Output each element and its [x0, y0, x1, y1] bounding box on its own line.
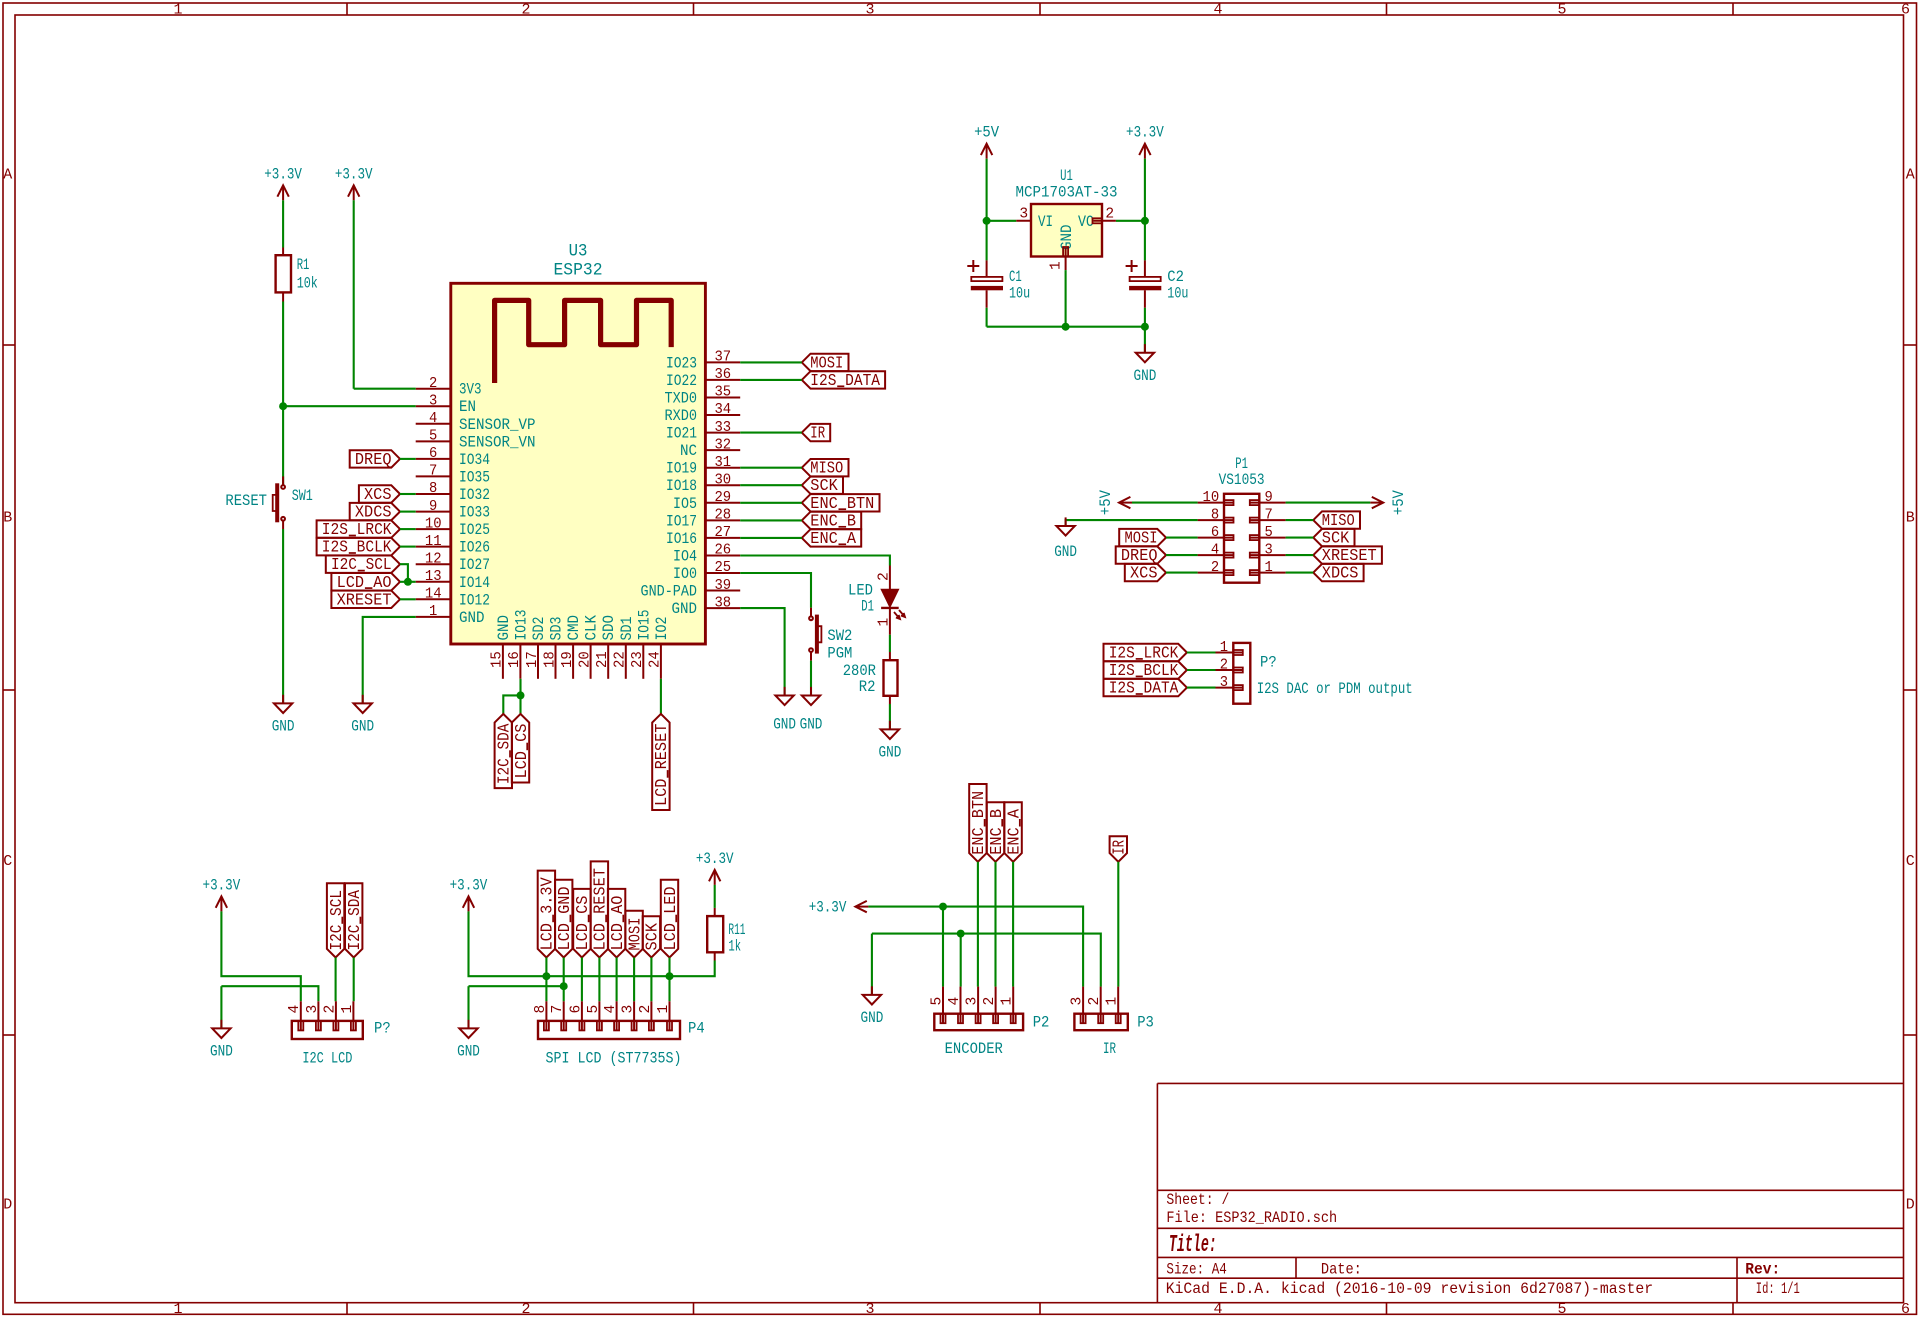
- svg-text:SENSOR_VP: SENSOR_VP: [459, 416, 536, 434]
- svg-text:+3.3V: +3.3V: [264, 165, 302, 183]
- svg-text:6: 6: [429, 446, 437, 462]
- svg-text:16: 16: [507, 651, 523, 668]
- svg-text:14: 14: [425, 587, 442, 603]
- svg-text:C1: C1: [1009, 268, 1022, 286]
- svg-text:1: 1: [1265, 560, 1274, 576]
- svg-text:SD3: SD3: [548, 617, 566, 641]
- svg-text:Title:: Title:: [1169, 1232, 1217, 1259]
- svg-text:7: 7: [1265, 508, 1273, 524]
- svg-text:3: 3: [865, 1301, 874, 1317]
- svg-text:IO16: IO16: [666, 530, 697, 548]
- svg-text:5: 5: [1557, 2, 1566, 19]
- svg-text:IO33: IO33: [459, 504, 490, 522]
- svg-text:+3.3V: +3.3V: [203, 876, 241, 894]
- svg-text:IO14: IO14: [459, 574, 490, 592]
- svg-text:25: 25: [714, 560, 731, 576]
- svg-text:GND: GND: [879, 744, 902, 762]
- svg-text:VS1053: VS1053: [1219, 471, 1265, 489]
- svg-text:11: 11: [425, 534, 442, 550]
- svg-text:P?: P?: [1260, 654, 1277, 672]
- svg-text:Sheet: /: Sheet: /: [1166, 1191, 1229, 1209]
- svg-text:20: 20: [577, 651, 593, 668]
- svg-text:6: 6: [568, 1005, 584, 1014]
- svg-text:SW2: SW2: [827, 627, 852, 645]
- svg-text:4: 4: [429, 411, 438, 427]
- svg-text:+5V: +5V: [974, 124, 1000, 142]
- svg-text:38: 38: [714, 595, 731, 611]
- svg-text:1: 1: [173, 2, 182, 19]
- svg-text:1: 1: [340, 1005, 356, 1014]
- svg-text:1: 1: [173, 1301, 182, 1317]
- svg-text:RESET: RESET: [225, 492, 267, 510]
- svg-text:VI: VI: [1038, 213, 1053, 231]
- svg-text:2: 2: [876, 572, 892, 581]
- svg-text:File: ESP32_RADIO.sch: File: ESP32_RADIO.sch: [1166, 1209, 1337, 1227]
- svg-text:+3.3V: +3.3V: [335, 165, 373, 183]
- svg-text:GND: GND: [495, 615, 513, 641]
- svg-text:27: 27: [714, 525, 731, 541]
- svg-text:SW1: SW1: [292, 487, 313, 505]
- svg-text:IO32: IO32: [459, 486, 490, 504]
- svg-text:13: 13: [425, 569, 442, 585]
- svg-text:23: 23: [630, 651, 646, 668]
- svg-text:24: 24: [648, 651, 664, 668]
- svg-text:ENCODER: ENCODER: [945, 1040, 1003, 1058]
- svg-text:19: 19: [560, 651, 576, 668]
- svg-text:GND: GND: [457, 1043, 480, 1061]
- svg-text:2: 2: [1211, 560, 1219, 576]
- svg-text:6: 6: [1901, 2, 1910, 19]
- svg-text:1: 1: [1105, 997, 1121, 1006]
- svg-text:IO17: IO17: [666, 512, 697, 530]
- svg-text:RXD0: RXD0: [665, 407, 698, 425]
- svg-text:IO13: IO13: [512, 610, 530, 641]
- svg-text:10k: 10k: [297, 275, 318, 293]
- svg-text:10u: 10u: [1167, 285, 1188, 303]
- svg-text:+3.3V: +3.3V: [809, 898, 847, 916]
- svg-text:PGM: PGM: [827, 645, 852, 663]
- svg-text:A: A: [1906, 166, 1915, 183]
- svg-text:SD1: SD1: [618, 617, 636, 641]
- svg-text:GND: GND: [351, 718, 374, 736]
- svg-text:3: 3: [305, 1005, 321, 1014]
- svg-text:IO0: IO0: [673, 565, 697, 583]
- svg-text:8: 8: [429, 481, 437, 497]
- svg-text:SPI LCD (ST7735S): SPI LCD (ST7735S): [546, 1050, 682, 1068]
- svg-text:36: 36: [714, 367, 731, 383]
- svg-text:+3.3V: +3.3V: [696, 850, 734, 868]
- svg-text:1: 1: [429, 604, 438, 620]
- svg-text:B: B: [1906, 510, 1915, 527]
- svg-text:28: 28: [714, 508, 731, 524]
- svg-text:4: 4: [1211, 543, 1220, 559]
- svg-text:2: 2: [521, 2, 530, 19]
- svg-text:10: 10: [425, 516, 442, 532]
- svg-text:+5V: +5V: [1390, 490, 1408, 516]
- svg-text:GND-PAD: GND-PAD: [641, 583, 698, 601]
- svg-text:Date:: Date:: [1321, 1260, 1362, 1278]
- svg-text:R11: R11: [728, 921, 745, 939]
- svg-text:Size: A4: Size: A4: [1166, 1260, 1226, 1278]
- svg-text:21: 21: [595, 651, 611, 668]
- svg-text:10u: 10u: [1009, 285, 1030, 303]
- svg-text:GND: GND: [272, 718, 295, 736]
- svg-text:C2: C2: [1167, 268, 1184, 286]
- svg-text:1: 1: [1000, 997, 1016, 1006]
- svg-text:29: 29: [714, 490, 731, 506]
- svg-text:7: 7: [550, 1005, 566, 1014]
- svg-text:2: 2: [322, 1005, 338, 1014]
- svg-text:GND: GND: [210, 1043, 233, 1061]
- svg-text:3: 3: [865, 2, 874, 19]
- svg-text:4: 4: [947, 997, 963, 1006]
- svg-text:4: 4: [287, 1005, 303, 1014]
- svg-text:3: 3: [429, 393, 437, 409]
- svg-text:SENSOR_VN: SENSOR_VN: [459, 433, 536, 451]
- svg-text:6: 6: [1211, 525, 1219, 541]
- svg-text:32: 32: [714, 437, 731, 453]
- svg-text:R2: R2: [859, 678, 876, 696]
- svg-text:IO4: IO4: [673, 548, 697, 566]
- svg-text:KiCad E.D.A. kicad (2016-10-0: KiCad E.D.A. kicad (2016-10-09 revision …: [1166, 1280, 1653, 1298]
- svg-text:EN: EN: [459, 398, 476, 416]
- svg-text:+3.3V: +3.3V: [1126, 124, 1164, 142]
- svg-text:5: 5: [586, 1005, 602, 1014]
- svg-text:I2S DAC or PDM output: I2S DAC or PDM output: [1257, 680, 1413, 698]
- svg-text:4: 4: [1213, 1301, 1222, 1317]
- svg-text:GND: GND: [861, 1009, 884, 1027]
- svg-text:1: 1: [876, 618, 892, 627]
- svg-text:GND: GND: [1134, 367, 1157, 385]
- svg-text:GND: GND: [459, 609, 485, 627]
- svg-text:33: 33: [714, 420, 731, 436]
- svg-text:3: 3: [621, 1005, 637, 1014]
- svg-text:1: 1: [1220, 640, 1229, 656]
- svg-text:3: 3: [965, 997, 981, 1006]
- svg-text:5: 5: [929, 997, 945, 1006]
- svg-text:C: C: [1906, 853, 1915, 870]
- svg-text:D: D: [1906, 1196, 1915, 1213]
- svg-text:9: 9: [1265, 490, 1273, 506]
- svg-text:7: 7: [429, 464, 437, 480]
- svg-text:U3: U3: [569, 243, 588, 262]
- svg-text:1: 1: [656, 1005, 672, 1014]
- svg-text:2: 2: [982, 997, 998, 1006]
- svg-text:SDO: SDO: [600, 615, 618, 641]
- svg-text:12: 12: [425, 551, 442, 567]
- svg-text:1k: 1k: [728, 938, 741, 956]
- svg-text:3: 3: [1265, 543, 1273, 559]
- svg-text:8: 8: [533, 1005, 549, 1014]
- svg-text:R1: R1: [297, 256, 310, 274]
- svg-text:+5V: +5V: [1097, 490, 1115, 516]
- svg-text:4: 4: [1213, 2, 1222, 19]
- svg-text:8: 8: [1211, 508, 1219, 524]
- svg-text:IR: IR: [1103, 1040, 1116, 1058]
- svg-text:2: 2: [1105, 207, 1114, 223]
- svg-text:IO22: IO22: [666, 372, 697, 390]
- svg-text:D: D: [3, 1196, 12, 1213]
- svg-text:26: 26: [714, 543, 731, 559]
- svg-text:GND: GND: [672, 600, 698, 618]
- svg-text:D1: D1: [861, 597, 874, 615]
- svg-text:IO25: IO25: [459, 521, 490, 539]
- svg-text:IO18: IO18: [666, 477, 697, 495]
- svg-text:CLK: CLK: [583, 615, 601, 641]
- svg-text:P2: P2: [1033, 1014, 1050, 1032]
- svg-text:IO2: IO2: [653, 617, 671, 641]
- svg-text:VO: VO: [1078, 213, 1094, 231]
- svg-text:39: 39: [714, 578, 731, 594]
- svg-text:37: 37: [714, 350, 731, 366]
- svg-text:9: 9: [429, 499, 437, 515]
- svg-text:IO35: IO35: [459, 468, 490, 486]
- svg-text:NC: NC: [680, 442, 697, 460]
- svg-text:17: 17: [525, 651, 541, 668]
- svg-text:2: 2: [1220, 658, 1228, 674]
- svg-text:B: B: [3, 510, 12, 527]
- svg-text:6: 6: [1901, 1301, 1910, 1317]
- svg-text:18: 18: [542, 651, 558, 668]
- svg-text:P4: P4: [688, 1020, 705, 1038]
- svg-text:GND: GND: [1054, 543, 1077, 561]
- svg-text:IO15: IO15: [635, 610, 653, 641]
- svg-text:+3.3V: +3.3V: [450, 876, 488, 894]
- svg-text:P?: P?: [374, 1020, 391, 1038]
- svg-text:Id: 1/1: Id: 1/1: [1756, 1280, 1800, 1298]
- svg-text:GND: GND: [773, 716, 796, 734]
- svg-text:Rev:: Rev:: [1745, 1260, 1780, 1278]
- svg-text:2: 2: [638, 1005, 654, 1014]
- svg-text:1: 1: [1049, 261, 1065, 270]
- svg-text:IO5: IO5: [673, 495, 697, 513]
- svg-text:A: A: [3, 166, 12, 183]
- svg-text:3: 3: [1019, 207, 1028, 223]
- svg-text:10: 10: [1203, 490, 1220, 506]
- svg-text:IO21: IO21: [666, 425, 697, 443]
- svg-text:15: 15: [490, 651, 506, 668]
- svg-text:3V3: 3V3: [459, 381, 482, 399]
- svg-text:IO12: IO12: [459, 591, 490, 609]
- svg-text:5: 5: [1557, 1301, 1566, 1317]
- svg-text:IO23: IO23: [666, 354, 697, 372]
- svg-text:ESP32: ESP32: [554, 261, 603, 280]
- svg-text:34: 34: [714, 402, 731, 418]
- svg-text:2: 2: [1087, 997, 1103, 1006]
- svg-text:22: 22: [613, 651, 629, 668]
- svg-text:5: 5: [429, 429, 437, 445]
- svg-text:3: 3: [1070, 997, 1086, 1006]
- svg-text:TXD0: TXD0: [665, 390, 698, 408]
- svg-text:3: 3: [1220, 675, 1228, 691]
- svg-text:IO19: IO19: [666, 460, 697, 478]
- svg-text:IO26: IO26: [459, 539, 490, 557]
- svg-text:MCP1703AT-33: MCP1703AT-33: [1016, 183, 1118, 201]
- svg-text:P3: P3: [1137, 1014, 1154, 1032]
- svg-text:30: 30: [714, 472, 731, 488]
- svg-text:IO27: IO27: [459, 556, 490, 574]
- svg-text:35: 35: [714, 385, 731, 401]
- svg-text:CMD: CMD: [565, 615, 583, 641]
- svg-text:5: 5: [1265, 525, 1273, 541]
- svg-text:4: 4: [603, 1005, 619, 1014]
- svg-text:2: 2: [521, 1301, 530, 1317]
- svg-text:C: C: [3, 853, 12, 870]
- svg-text:31: 31: [714, 455, 731, 471]
- svg-text:I2C LCD: I2C LCD: [302, 1050, 352, 1068]
- svg-text:2: 2: [429, 376, 437, 392]
- svg-text:GND: GND: [800, 716, 823, 734]
- svg-text:IO34: IO34: [459, 451, 490, 469]
- svg-text:SD2: SD2: [530, 617, 548, 641]
